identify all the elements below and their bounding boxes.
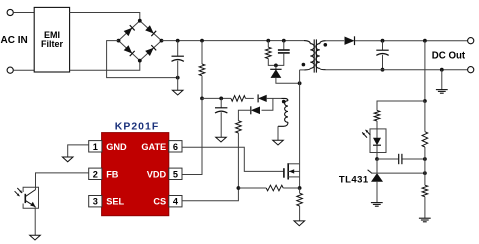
svg-text:KP201F: KP201F (115, 122, 159, 133)
ground IC GND (arrow) (62, 157, 73, 162)
node VDD cap junction (219, 97, 223, 101)
wire divider bottom to ground (424, 197, 426, 218)
wire resistor R4 to CS node (237, 133, 239, 188)
resistor sense R5 (horizontal) (266, 185, 283, 191)
svg-text:SEL: SEL (106, 197, 124, 207)
resistor R4 (236, 121, 242, 133)
svg-text:Filter: Filter (41, 39, 64, 49)
node TL431 ref junction (423, 171, 427, 175)
IC KP201F body (102, 133, 169, 216)
node drain junction (298, 81, 302, 85)
diode snubber clamp D7 (points up) (270, 69, 281, 78)
wire VDD node to aux rectifier resistor (202, 97, 231, 99)
resistor divider bottom R9 (422, 185, 428, 197)
label DC Out (432, 50, 466, 61)
svg-text:GND: GND (106, 142, 127, 152)
wire output ground drop (441, 70, 443, 90)
wire R7 to opto LED (376, 121, 378, 138)
resistor aux R2 (231, 96, 246, 102)
wire aux winding to diode D6 branch (262, 98, 273, 110)
wire TL431 anode to ground (376, 182, 378, 203)
resistor LED series R7 (374, 111, 380, 122)
diode bridge D2 (top to right) (145, 25, 156, 36)
transformer core (314, 39, 316, 72)
node bulk cap top junction (176, 39, 180, 43)
diode output D8 (points right) (345, 36, 355, 45)
capacitor VDD C3 (215, 108, 227, 113)
wire opto emitter to ground (34, 207, 36, 235)
ground divider (earth) (419, 218, 431, 222)
wire bulk cap top lead (177, 41, 179, 56)
wire snubber C top lead (283, 41, 285, 50)
node output ground junction (440, 68, 444, 72)
capacitor output C4 (376, 50, 388, 55)
wire startup resistor to VDD node (201, 76, 203, 99)
node DC output top terminal (468, 38, 474, 44)
ground primary bulk (arrow) (172, 90, 183, 95)
wire pin6 GATE to MOSFET gate (182, 147, 284, 171)
node transformer primary polarity dot (302, 63, 306, 67)
wire TL431 node to comp cap (377, 158, 398, 160)
svg-text:GATE: GATE (141, 142, 166, 152)
wire VDD cap top lead (220, 98, 222, 107)
svg-text:5: 5 (173, 169, 178, 179)
wire R6 to ground (299, 206, 301, 221)
diode aux D6 (points left) (251, 106, 260, 114)
node AC input bottom terminal (7, 67, 13, 73)
inductor transformer primary winding (300, 41, 315, 70)
wire aux resistor to diode D5 (246, 97, 254, 99)
svg-text:AC IN: AC IN (1, 35, 28, 46)
wire startup resistor top lead (201, 41, 203, 64)
label TL431 (339, 175, 369, 186)
wire divider segments (424, 101, 426, 185)
svg-text:FB: FB (106, 169, 119, 179)
transistor opto phototransistor (25, 190, 35, 207)
node DC output bottom terminal (468, 67, 474, 73)
svg-text:3: 3 (93, 197, 98, 207)
node feedback tap junction (423, 39, 427, 43)
node CS network junction (237, 186, 241, 190)
wire MOSFET source to sense node (299, 177, 301, 188)
wire feedback to LED branch (377, 101, 425, 111)
wire snubber R top lead (267, 41, 269, 48)
pin 1 GND (89, 141, 127, 152)
node MOSFET source junction (298, 186, 302, 190)
node bridge right vertex (160, 39, 164, 43)
node bridge left vertex (117, 39, 121, 43)
diode bridge D3 (left to bottom) (124, 45, 135, 56)
wire primary bottom to MOSFET drain (299, 70, 301, 164)
node output cap bottom junction (381, 68, 385, 72)
ground VDD cap (arrow) (216, 137, 227, 142)
ground sense resistor (arrow) (294, 221, 305, 226)
svg-text:2: 2 (93, 169, 98, 179)
opto LED light arrows (362, 130, 370, 138)
opto transistor box (23, 187, 38, 208)
ground TL431 (earth) (371, 203, 383, 207)
diode bridge D1 (left to top) (124, 25, 135, 36)
diode opto LED (points down) (373, 138, 381, 145)
wire output cap top lead (382, 41, 384, 50)
wire AC top to EMI filter (13, 12, 34, 14)
wire bridge left vertex to bulk cap negative (107, 41, 178, 78)
pin 6 GATE (141, 141, 182, 152)
svg-text:1: 1 (93, 142, 98, 152)
wire snubber junction to clamp diode (275, 65, 277, 69)
wire CS node to sense resistor (238, 187, 266, 189)
wire opto LED cathode to TL431 node (376, 146, 378, 160)
wire EMI top to bridge top vertex (70, 13, 140, 21)
opto transistor light arrows (15, 188, 23, 196)
wire aux winding bottom to ground (277, 126, 279, 140)
pin 3 SEL (89, 196, 125, 207)
svg-text:CS: CS (153, 197, 166, 207)
label KP201F (115, 122, 159, 133)
wire pin2 FB to opto transistor (36, 173, 89, 190)
wire LED node down to TL431 cathode (376, 159, 378, 173)
wire secondary top to output diode (326, 40, 344, 42)
node divider mid cap junction (423, 157, 427, 161)
svg-text:DC Out: DC Out (432, 50, 466, 61)
transistor TL431 shunt regulator (368, 170, 425, 182)
node transformer secondary polarity dot (324, 43, 328, 47)
resistor startup R1 (199, 64, 205, 76)
svg-text:6: 6 (173, 142, 178, 152)
diode bridge D4 (bottom to right) (145, 45, 156, 56)
svg-text:4: 4 (173, 197, 179, 207)
pin 4 CS (153, 196, 182, 207)
node bridge bottom vertex (138, 59, 142, 63)
ground opto emitter (arrow) (30, 235, 41, 240)
node startup resistor top junction (200, 39, 204, 43)
ground aux winding (arrow) (273, 140, 284, 145)
wire HV top rail (162, 40, 305, 42)
wire pin4 CS to sense node (182, 188, 238, 201)
node snubber cap top junction (282, 39, 286, 43)
wire pin1 GND to ground (68, 145, 89, 157)
capacitor compensation C5 (399, 154, 402, 164)
wire output cap bottom lead (382, 55, 384, 70)
transistor MOSFET Q1 (284, 163, 300, 179)
resistor divider top R8 (422, 132, 428, 147)
node feedback split junction (423, 99, 427, 103)
diode aux rectifier D5 (points left) (258, 94, 267, 102)
node LED cathode junction (375, 157, 379, 161)
wire comp cap to divider mid (402, 158, 425, 160)
pin 2 FB (89, 168, 119, 179)
node bridge top vertex (138, 19, 142, 23)
wire bridge diamond edges (119, 21, 162, 61)
wire diode D6 cathode to resistor R4 (238, 110, 251, 120)
wire output bottom rail (326, 69, 468, 71)
node aux winding polarity dot (282, 100, 286, 104)
wire bulk cap bottom lead (177, 61, 179, 78)
node snubber RC bottom junction (274, 64, 278, 68)
wire snubber R bottom lead (268, 59, 276, 66)
wire AC bottom to EMI filter (13, 69, 34, 71)
label AC IN (1, 35, 28, 46)
resistor sense R6 (vertical) (297, 193, 303, 206)
ground DC output (earth) (436, 90, 448, 94)
wire VDD vertical to pin5 (182, 98, 202, 174)
wire sense resistor to source (283, 187, 299, 189)
capacitor bulk C1 (172, 56, 184, 61)
wire snubber C bottom lead (276, 53, 284, 66)
svg-text:VDD: VDD (147, 169, 167, 179)
pin 5 VDD (147, 168, 182, 179)
capacitor snubber C2 (278, 50, 290, 53)
node VDD node junction (200, 97, 204, 101)
node AC input top terminal (7, 9, 13, 15)
opto LED box (370, 129, 386, 153)
wire EMI bottom to bridge bottom vertex (70, 61, 140, 71)
resistor snubber R3 (266, 47, 272, 58)
wire bulk cap negative to ground (177, 78, 179, 91)
node bulk cap negative junction (176, 76, 180, 80)
wire feedback vertical from output (424, 41, 426, 101)
svg-text:TL431: TL431 (339, 175, 369, 186)
node snubber resistor top junction (266, 39, 270, 43)
inductor transformer secondary winding (316, 41, 326, 70)
wire VDD cap bottom lead (220, 112, 222, 137)
inductor transformer auxiliary winding (278, 98, 288, 126)
EMI filter block (34, 7, 69, 72)
node output cap top junction (381, 39, 385, 43)
wire output top rail (355, 40, 468, 42)
wire clamp diode anode to drain node (276, 78, 300, 83)
wire aux diode D5 anode to winding top (267, 97, 282, 99)
wire source junction to R6 (299, 188, 301, 193)
